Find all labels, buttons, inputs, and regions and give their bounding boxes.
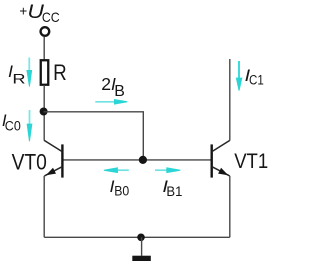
VT1 base bar — [210, 144, 212, 177]
ground junction dot — [137, 234, 145, 242]
label IB0 — [110, 177, 130, 198]
VT0 collector lead — [44, 140, 62, 151]
base node junction dot — [139, 156, 147, 164]
svg-text:B0: B0 — [114, 183, 129, 199]
current arrow IB0 — [104, 167, 129, 173]
wire resistor to node A and on to VT0 collector bend — [43, 85, 45, 141]
wire ground stub — [141, 237, 143, 256]
ground — [132, 256, 151, 261]
svg-text:+: + — [19, 3, 27, 18]
wire 2IB: node A to base node — [44, 112, 144, 160]
resistor R — [41, 60, 49, 85]
node +Ucc label — [19, 1, 59, 25]
label IC0 — [2, 111, 21, 134]
VT0 emitter lead — [44, 167, 62, 176]
wire bottom rail — [44, 236, 230, 238]
VT0 emitter arrowhead — [46, 168, 56, 176]
transistor VT1 — [212, 140, 230, 177]
svg-text:B1: B1 — [166, 183, 182, 199]
svg-text:C0: C0 — [5, 118, 21, 134]
current arrow IR — [26, 58, 32, 87]
VT1 emitter arrowhead — [218, 168, 228, 176]
wire VT1 emitter down — [229, 176, 231, 237]
current arrow IC0 — [27, 110, 33, 141]
svg-text:VT0: VT0 — [12, 150, 47, 175]
svg-text:C1: C1 — [249, 72, 264, 88]
wire terminal to resistor R — [43, 37, 45, 60]
svg-text:R: R — [12, 70, 25, 86]
wire VT1 collector up — [229, 59, 231, 141]
current arrow IB1 — [155, 167, 180, 173]
wire VT0 emitter down — [43, 176, 45, 237]
transistor VT0 — [44, 140, 62, 177]
VT0 base bar — [61, 144, 63, 177]
wire base rail VT0 to VT1 — [63, 159, 211, 161]
svg-text:R: R — [53, 60, 67, 85]
label 2IB — [101, 74, 125, 100]
label IB1 — [162, 177, 182, 199]
terminal +Ucc — [41, 27, 50, 36]
label IR — [8, 62, 26, 86]
current arrow 2IB — [95, 99, 127, 105]
svg-text:CC: CC — [42, 10, 60, 25]
svg-text:VT1: VT1 — [234, 149, 268, 173]
svg-text:B: B — [114, 83, 125, 100]
current arrow IC1 — [236, 61, 243, 91]
label IC1 — [245, 66, 264, 87]
node A junction dot — [40, 108, 48, 116]
VT1 collector lead — [212, 140, 230, 151]
VT1 emitter lead — [212, 167, 230, 176]
